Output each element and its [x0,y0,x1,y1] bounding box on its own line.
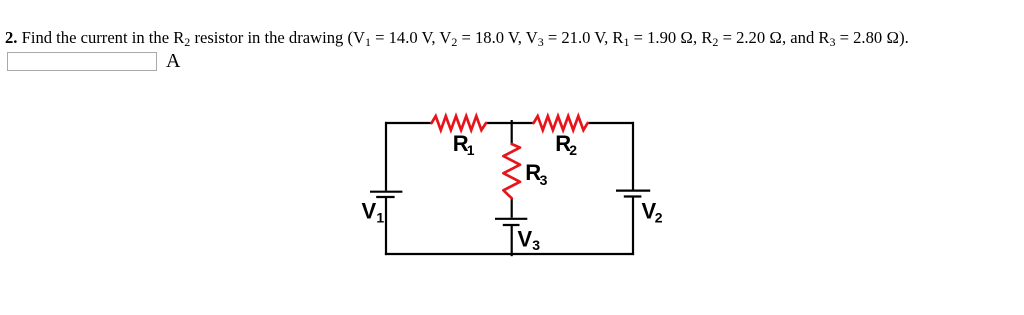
battery V3 plate short [503,224,520,226]
battery V2 plate short [624,195,642,197]
battery V2 plate long [616,190,650,192]
resistor R2 [534,116,588,130]
wire top-left segment [385,122,432,124]
wire right vertical upper [632,122,634,190]
wire top-middle segment [486,122,534,124]
svg-text:1: 1 [467,142,475,158]
svg-text:1: 1 [376,209,384,225]
wire right vertical lower [632,197,634,256]
resistor R1 [432,116,486,130]
wire middle below V3 [511,225,513,256]
svg-text:2: 2 [655,209,663,225]
resistor R3 [503,144,520,198]
wire middle between R3 and V3 [511,198,513,218]
battery V3 plate long [495,218,527,220]
svg-text:V: V [362,199,377,224]
svg-text:V: V [518,226,533,251]
svg-text:3: 3 [540,172,548,188]
unit label A [166,50,180,73]
question text [5,28,909,48]
wire middle vertical upper (node to R3) [511,120,513,145]
svg-text:3: 3 [532,237,540,253]
wire left vertical upper [385,122,387,191]
battery V1 plate short [376,196,394,198]
answer input box [7,52,157,71]
svg-text:2: 2 [569,142,577,158]
wire left vertical lower [385,197,387,255]
battery V1 plate long [370,191,402,193]
wire bottom segment [385,253,634,255]
wire top-right segment [587,122,634,124]
